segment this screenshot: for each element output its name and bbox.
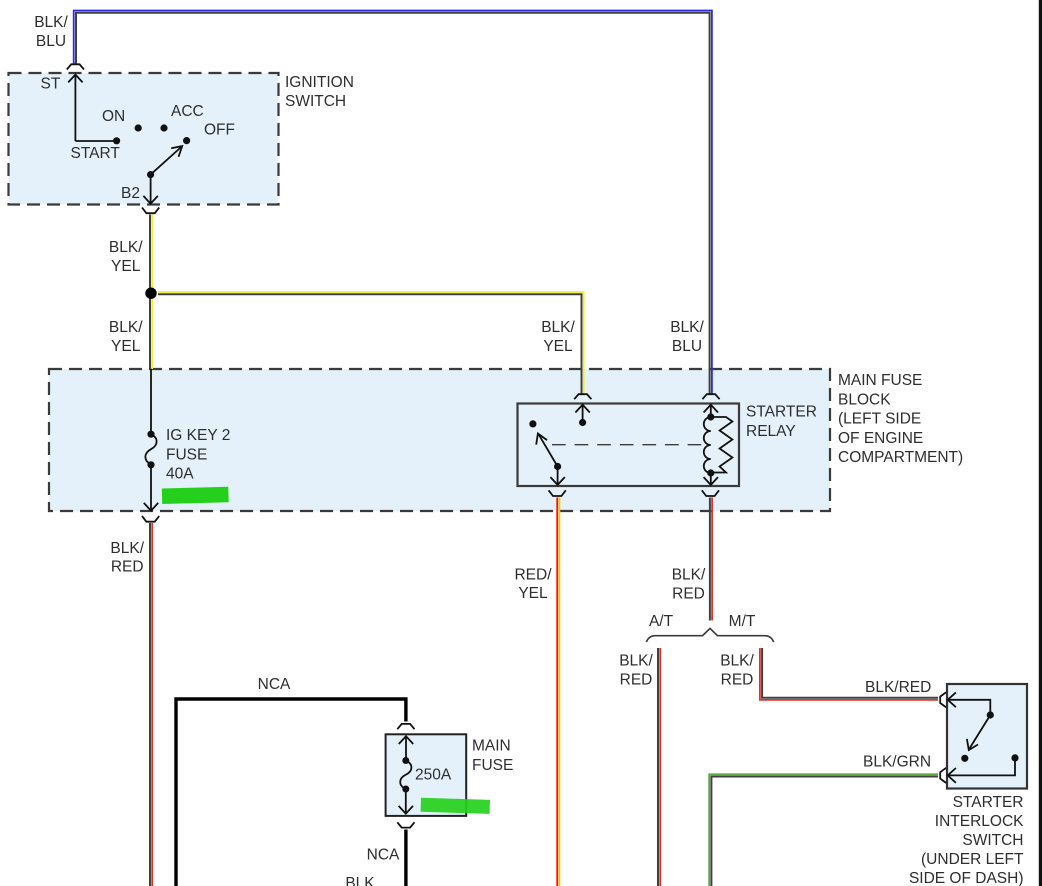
svg-text:BLK/: BLK/ <box>110 540 144 557</box>
wire RED/YEL <box>557 498 559 886</box>
svg-text:BLU: BLU <box>672 338 702 355</box>
svg-text:ACC: ACC <box>171 103 204 120</box>
main fuse output arrow <box>399 789 413 814</box>
wire BLK/RED below relay <box>710 498 712 621</box>
svg-text:40A: 40A <box>166 466 194 483</box>
svg-text:ST: ST <box>41 76 61 93</box>
contact ACC <box>160 124 167 131</box>
A/T M/T split brace <box>646 628 773 642</box>
svg-text:IG KEY 2: IG KEY 2 <box>166 427 230 444</box>
relay coil <box>707 413 714 420</box>
wire BLK/YEL ignition to fuse <box>150 215 152 370</box>
relay switch lower contact <box>554 463 561 470</box>
svg-text:BLK/: BLK/ <box>619 653 653 670</box>
wire BLK/YEL branch to relay <box>158 292 584 394</box>
svg-text:YEL: YEL <box>518 585 548 602</box>
main fuse block box <box>49 369 830 511</box>
contact START <box>113 137 120 144</box>
svg-text:INTERLOCK: INTERLOCK <box>935 813 1024 830</box>
connector interlock top <box>940 692 946 707</box>
connector above relay yellow input <box>574 394 591 399</box>
relay mechanical dashed link <box>552 444 708 446</box>
ignition START leg <box>75 140 116 142</box>
svg-text:B2: B2 <box>121 185 140 202</box>
svg-text:OFF: OFF <box>204 122 235 139</box>
interlock bottom terminal arrow <box>948 758 1015 783</box>
fuse output arrow <box>144 465 158 511</box>
svg-text:RED/: RED/ <box>514 567 552 584</box>
svg-text:FUSE: FUSE <box>166 446 207 463</box>
svg-text:SIDE OF DASH): SIDE OF DASH) <box>909 870 1024 886</box>
svg-text:ON: ON <box>102 108 125 125</box>
interlock bottom-right contact <box>1011 754 1018 761</box>
wire BLK/BLU top <box>74 11 712 394</box>
svg-text:NCA: NCA <box>258 676 291 693</box>
connector below relay left output <box>549 490 566 496</box>
svg-text:BLK/: BLK/ <box>109 239 143 256</box>
ignition B2 output arrow <box>143 175 157 204</box>
relay switch output arrow <box>550 467 564 485</box>
connector below relay right output <box>702 490 719 496</box>
wire NCA below fuse <box>404 830 407 886</box>
wire BLK/RED M/T branch <box>760 648 938 700</box>
svg-text:YEL: YEL <box>543 338 573 355</box>
svg-text:A/T: A/T <box>649 613 674 630</box>
svg-text:MAIN: MAIN <box>472 738 511 755</box>
wire BLK/GRN <box>709 774 938 886</box>
svg-text:BLK: BLK <box>345 875 375 886</box>
wire NCA <box>176 699 406 886</box>
connector interlock bottom <box>940 768 946 783</box>
ignition rotor arm B2->OFF <box>151 146 183 175</box>
svg-text:RED: RED <box>620 672 653 689</box>
svg-text:SWITCH: SWITCH <box>962 832 1023 849</box>
svg-text:BLK/: BLK/ <box>672 567 706 584</box>
starter relay box <box>518 404 740 487</box>
svg-text:STARTER: STARTER <box>746 404 817 421</box>
fuse IG KEY 2 symbol <box>147 431 154 438</box>
svg-text:RED: RED <box>721 672 754 689</box>
svg-text:(LEFT SIDE: (LEFT SIDE <box>838 411 921 428</box>
connector above main fuse <box>397 724 414 729</box>
interlock lower-left contact <box>961 755 968 762</box>
svg-text:IGNITION: IGNITION <box>285 74 354 91</box>
connector at ignition ST <box>67 64 84 69</box>
connector above relay blue input <box>702 394 719 399</box>
starter interlock switch box <box>947 684 1027 789</box>
svg-text:BLK/GRN: BLK/GRN <box>863 754 931 771</box>
svg-text:(UNDER LEFT: (UNDER LEFT <box>921 851 1024 868</box>
fuse 250A symbol <box>402 757 409 764</box>
ignition switch box <box>9 73 279 205</box>
relay coil bottom arrow <box>704 473 718 485</box>
interlock top contact <box>987 711 994 718</box>
svg-text:SWITCH: SWITCH <box>285 93 346 110</box>
relay coil input arrow <box>575 405 589 423</box>
relay resistor parallel <box>711 417 733 473</box>
connector below fuse block left <box>142 516 159 522</box>
main fuse input arrow <box>399 736 413 760</box>
ignition ST arrow <box>68 75 82 141</box>
svg-text:BLK/: BLK/ <box>541 319 575 336</box>
main fuse box <box>386 734 467 816</box>
svg-text:OF ENGINE: OF ENGINE <box>838 430 923 447</box>
green highlight 250A <box>421 798 490 814</box>
junction node <box>145 288 156 299</box>
relay coil top arrow <box>704 405 718 417</box>
wire BLK/RED below fuse <box>150 523 152 886</box>
svg-text:BLK/: BLK/ <box>109 319 143 336</box>
connector below main fuse <box>397 822 414 827</box>
svg-text:RELAY: RELAY <box>746 423 796 440</box>
svg-text:START: START <box>71 145 121 162</box>
relay switch top contact <box>529 420 536 427</box>
wire BLK/RED A/T branch <box>658 648 660 886</box>
svg-text:BLK/: BLK/ <box>670 319 704 336</box>
svg-text:BLK/: BLK/ <box>34 14 68 31</box>
contact OFF <box>183 137 190 144</box>
svg-text:FUSE: FUSE <box>472 757 513 774</box>
svg-text:BLK/: BLK/ <box>720 653 754 670</box>
svg-text:BLK/RED: BLK/RED <box>865 679 931 696</box>
interlock switch arm <box>967 715 990 750</box>
relay switch arm <box>536 434 557 467</box>
connector below ignition <box>142 208 159 214</box>
svg-text:YEL: YEL <box>111 338 141 355</box>
svg-text:BLOCK: BLOCK <box>838 391 891 408</box>
svg-text:COMPARTMENT): COMPARTMENT) <box>838 449 963 466</box>
contact ON <box>135 124 142 131</box>
svg-text:RED: RED <box>111 559 144 576</box>
green highlight 40A <box>162 487 229 504</box>
fuse IG KEY 2 wire entering <box>150 369 152 431</box>
svg-text:MAIN FUSE: MAIN FUSE <box>838 372 922 389</box>
svg-text:NCA: NCA <box>367 847 400 864</box>
contact B2 <box>147 171 154 178</box>
right page border <box>1039 0 1042 886</box>
svg-text:250A: 250A <box>415 767 452 784</box>
svg-text:M/T: M/T <box>729 613 756 630</box>
svg-text:BLU: BLU <box>36 33 66 50</box>
svg-text:STARTER: STARTER <box>953 794 1024 811</box>
svg-text:YEL: YEL <box>111 258 141 275</box>
interlock top terminal arrow <box>948 692 991 711</box>
svg-text:RED: RED <box>672 586 705 603</box>
